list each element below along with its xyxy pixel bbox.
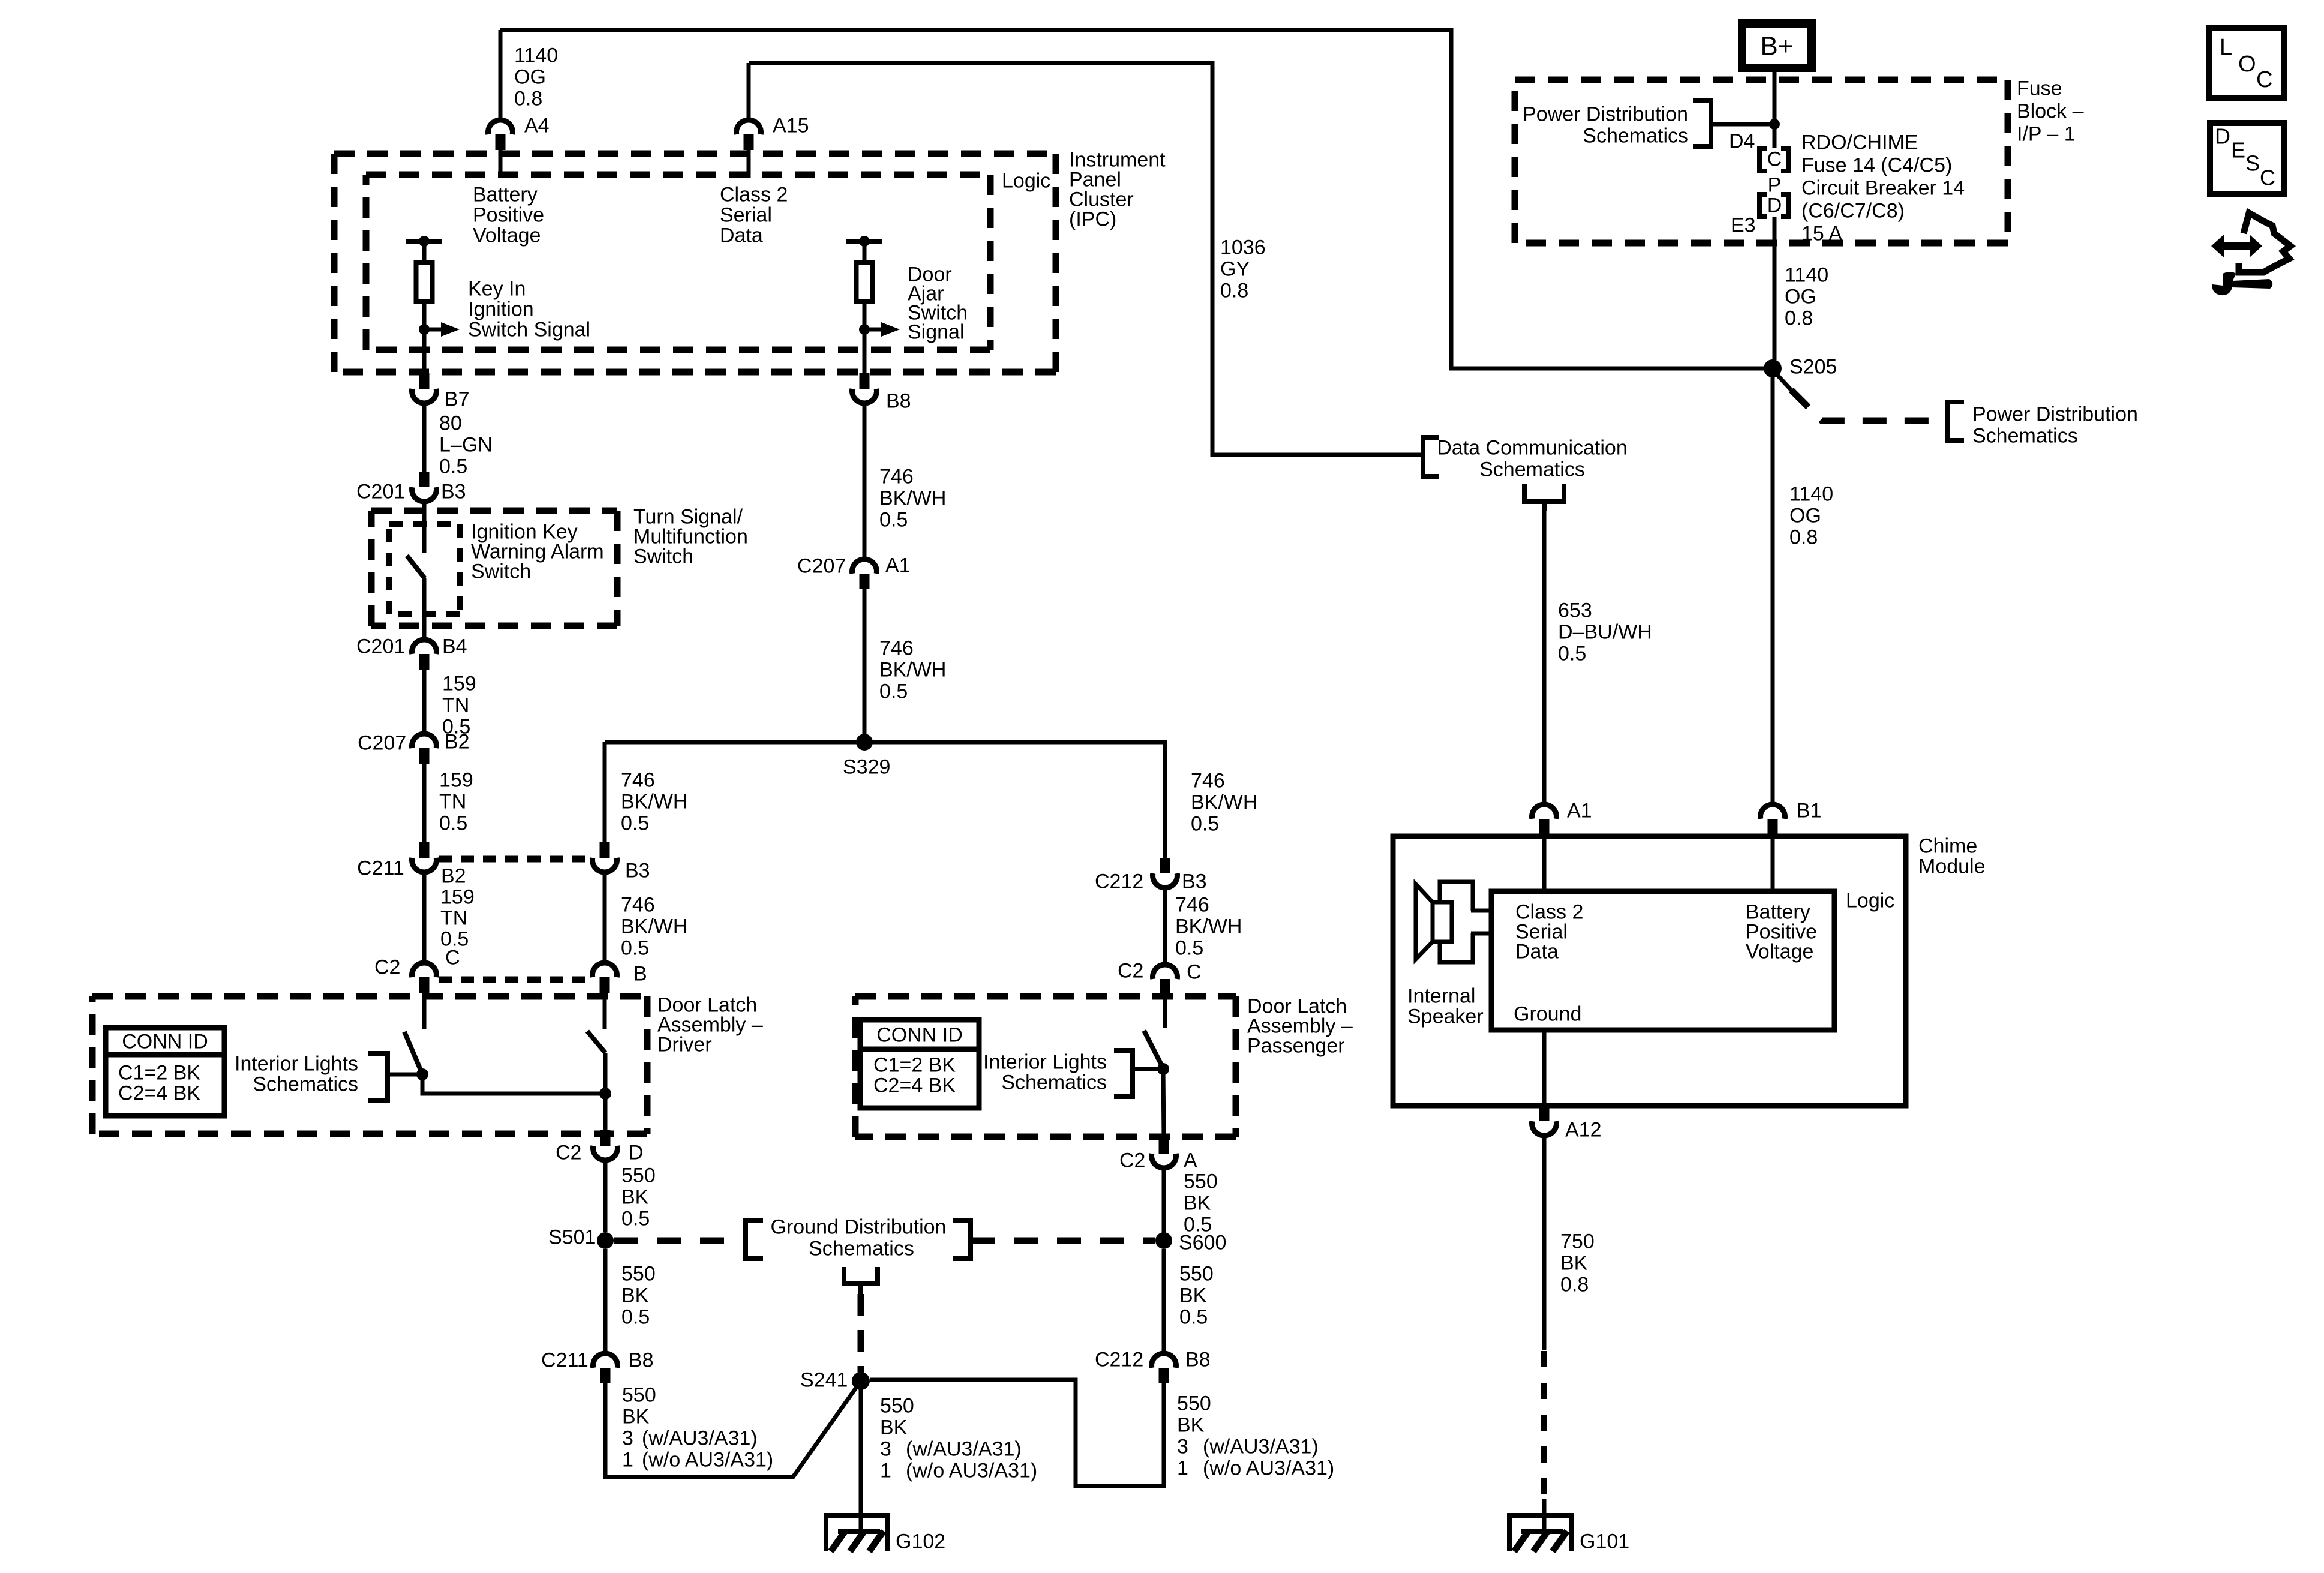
svg-text:C1=2 BK: C1=2 BK — [118, 1061, 200, 1084]
svg-text:BK/WH: BK/WH — [879, 487, 946, 509]
svg-text:159: 159 — [442, 672, 476, 695]
svg-text:C201: C201 — [356, 635, 405, 658]
svg-text:P: P — [1768, 173, 1782, 196]
svg-text:0.5: 0.5 — [621, 1305, 650, 1328]
svg-text:0.5: 0.5 — [439, 812, 467, 834]
svg-text:80: 80 — [439, 412, 462, 434]
svg-text:A15: A15 — [773, 114, 809, 137]
svg-text:Interior Lights: Interior Lights — [983, 1050, 1107, 1073]
wire bracket to node D4 — [1711, 122, 1774, 127]
svg-text:RDO/CHIME: RDO/CHIME — [1801, 131, 1918, 154]
svg-text:TN: TN — [442, 694, 469, 716]
dashed wire to G101 — [1541, 1351, 1547, 1501]
svg-text:3: 3 — [622, 1427, 633, 1449]
chime Logic box — [1491, 891, 1834, 1030]
svg-text:(w/AU3/A31): (w/AU3/A31) — [1203, 1435, 1319, 1458]
svg-text:Switch: Switch — [471, 560, 531, 583]
arrow Key In Ignition Switch Signal — [424, 328, 441, 332]
svg-text:L: L — [2220, 35, 2232, 60]
dashed reference S205 to Power Distribution — [1776, 374, 1791, 390]
svg-text:0.5: 0.5 — [439, 455, 467, 478]
bracket right of Ground Distribution Schematics — [953, 1220, 971, 1259]
svg-text:B3: B3 — [441, 480, 466, 503]
svg-text:C: C — [1767, 148, 1782, 170]
svg-text:CONN ID: CONN ID — [876, 1023, 963, 1046]
svg-text:C212: C212 — [1095, 1348, 1143, 1371]
wire bracket to switch node (driver) — [388, 1073, 420, 1077]
svg-text:D: D — [629, 1141, 644, 1164]
svg-text:(w/AU3/A31): (w/AU3/A31) — [906, 1437, 1022, 1460]
wire S600 to C212 B8 — [1162, 1249, 1166, 1352]
svg-text:BK/WH: BK/WH — [1191, 791, 1257, 813]
svg-text:746: 746 — [879, 465, 914, 488]
resistor (Door Ajar) — [863, 241, 867, 263]
node passenger latch switch — [1157, 1063, 1169, 1075]
svg-text:C2: C2 — [1118, 959, 1143, 982]
svg-text:Battery: Battery — [473, 183, 538, 206]
svg-text:CONN ID: CONN ID — [122, 1030, 208, 1053]
svg-text:BK: BK — [1560, 1251, 1588, 1274]
wire C207 A1 to S329 — [863, 589, 867, 742]
svg-text:Key In: Key In — [468, 277, 526, 300]
node at Door Ajar signal arrow — [859, 324, 870, 335]
svg-text:S205: S205 — [1789, 355, 1837, 378]
Fuse Block dashed box — [1515, 77, 2008, 83]
node at top of Key In resistor — [419, 236, 430, 247]
svg-text:159: 159 — [440, 885, 475, 908]
node driver latch switch — [416, 1068, 428, 1080]
driver door ajar switch blade (right) — [587, 1031, 605, 1053]
svg-text:Power Distribution: Power Distribution — [1972, 403, 2138, 425]
connector B8 (IPC door ajar) — [860, 373, 870, 389]
svg-text:1140: 1140 — [514, 44, 558, 67]
svg-text:D–BU/WH: D–BU/WH — [1558, 620, 1652, 643]
svg-text:0.8: 0.8 — [1789, 526, 1818, 548]
svg-text:A1: A1 — [885, 554, 911, 577]
svg-text:3: 3 — [880, 1437, 891, 1460]
CONN ID table (passenger) — [860, 1020, 979, 1108]
svg-text:B2: B2 — [445, 730, 470, 753]
svg-text:Schematics: Schematics — [1479, 458, 1585, 481]
svg-text:550: 550 — [622, 1383, 656, 1406]
wire C211 B3 to C2 B (driver right) — [603, 873, 607, 962]
svg-text:C2=4 BK: C2=4 BK — [118, 1082, 200, 1104]
svg-text:550: 550 — [880, 1394, 914, 1417]
svg-text:A: A — [1184, 1149, 1197, 1172]
svg-text:0.5: 0.5 — [1191, 812, 1219, 835]
wire C201 B4 to C207 B2 — [422, 670, 427, 733]
svg-text:Power Distribution: Power Distribution — [1523, 103, 1688, 125]
connector B1 (chime module) — [1761, 804, 1785, 819]
svg-text:B2: B2 — [441, 864, 466, 887]
connector C212 B3 (passenger) — [1160, 858, 1170, 873]
wire A12 down — [1542, 1137, 1547, 1350]
svg-text:550: 550 — [621, 1262, 656, 1285]
resistor (Key In Ignition) — [422, 241, 427, 263]
wire C211 B8 to S241 — [605, 1381, 861, 1477]
svg-text:Internal: Internal — [1407, 984, 1475, 1007]
svg-text:0.5: 0.5 — [1179, 1305, 1208, 1328]
svg-text:E: E — [2231, 138, 2245, 163]
svg-text:OG: OG — [1785, 285, 1816, 308]
svg-text:746: 746 — [1175, 893, 1209, 916]
svg-text:Schematics: Schematics — [253, 1073, 358, 1095]
svg-text:0.8: 0.8 — [1220, 279, 1248, 302]
svg-text:Driver: Driver — [657, 1033, 712, 1056]
svg-text:A4: A4 — [524, 114, 550, 137]
wire B8 to C207 A1 — [863, 404, 867, 558]
under-bracket Data Communication — [1524, 484, 1564, 502]
svg-text:750: 750 — [1560, 1230, 1595, 1253]
svg-text:0.5: 0.5 — [879, 680, 908, 703]
splice S205 — [1764, 359, 1782, 377]
bracket left of Ground Distribution Schematics — [746, 1220, 763, 1259]
svg-text:746: 746 — [621, 769, 655, 791]
svg-text:653: 653 — [1558, 599, 1592, 622]
wire A1 into logic box — [1542, 834, 1547, 891]
svg-text:Data: Data — [720, 224, 763, 247]
svg-text:BK: BK — [621, 1284, 649, 1307]
in-line connector C211 right half (cavity B3) — [600, 842, 610, 858]
svg-text:3: 3 — [1177, 1435, 1188, 1458]
connector C211 B8 (driver) — [593, 1353, 618, 1368]
wire from S329 branch to passenger door — [603, 742, 607, 842]
svg-text:C: C — [1187, 960, 1202, 983]
svg-text:Logic: Logic — [1002, 169, 1050, 192]
connector C201 B3 — [419, 472, 430, 487]
internal speaker symbol — [1440, 882, 1473, 962]
driver door latch switch blade (left) — [404, 1032, 421, 1071]
svg-text:B8: B8 — [629, 1349, 654, 1371]
passenger latch switch blade — [1144, 1031, 1162, 1066]
svg-text:TN: TN — [439, 790, 466, 813]
svg-text:Logic: Logic — [1846, 889, 1894, 912]
dashed reference Ground Distribution to S600 — [971, 1238, 1155, 1244]
svg-text:550: 550 — [621, 1164, 656, 1187]
svg-text:B8: B8 — [886, 389, 911, 412]
svg-text:S329: S329 — [843, 755, 890, 778]
svg-text:G101: G101 — [1580, 1530, 1629, 1553]
bracket Power Distribution (fuse block) — [1693, 101, 1711, 146]
svg-text:B4: B4 — [442, 635, 467, 658]
svg-text:1: 1 — [880, 1459, 891, 1482]
svg-text:Ground: Ground — [1514, 1002, 1581, 1025]
svg-text:C212: C212 — [1095, 870, 1143, 893]
svg-text:Class 2: Class 2 — [720, 183, 788, 206]
svg-text:Schematics: Schematics — [1001, 1071, 1107, 1094]
svg-text:Module: Module — [1918, 855, 1986, 878]
svg-text:BK: BK — [880, 1416, 908, 1439]
ground G102 — [824, 1513, 890, 1518]
svg-text:C2: C2 — [556, 1141, 581, 1164]
IPC Logic inner dashed box — [366, 172, 990, 178]
connector C201 B4 — [412, 640, 437, 654]
svg-text:C211: C211 — [541, 1349, 588, 1371]
wire from Door Ajar node to connector B8 — [863, 329, 867, 374]
connector B7 (IPC bottom) — [419, 373, 430, 389]
svg-text:1: 1 — [622, 1448, 633, 1471]
wire driver ajar switch down to C2 D — [603, 1053, 608, 1131]
svg-text:(C6/C7/C8): (C6/C7/C8) — [1801, 199, 1905, 222]
svg-text:Fuse 14 (C4/C5): Fuse 14 (C4/C5) — [1801, 154, 1952, 176]
connector A12 (chime module) — [1539, 1106, 1550, 1121]
in-line connector C2 right half (cavity B, driver) — [593, 963, 617, 977]
svg-text:Schematics: Schematics — [1972, 424, 2078, 447]
wire switch to C201 B4 — [422, 578, 427, 638]
svg-text:S241: S241 — [800, 1368, 848, 1391]
connector C2 C (passenger) — [1152, 965, 1177, 979]
arrow Door Ajar Switch Signal — [864, 328, 881, 332]
wire stub into IPC connector A4 — [499, 30, 503, 118]
connector C2 D (driver) — [600, 1130, 611, 1146]
svg-text:OG: OG — [1789, 504, 1821, 527]
ignition key warning switch blade — [407, 556, 425, 578]
wire C2 A to S600 — [1162, 1169, 1166, 1233]
svg-text:D: D — [2215, 124, 2230, 149]
bracket Data Communication Schematics — [1423, 437, 1439, 476]
svg-text:(w/o AU3/A31): (w/o AU3/A31) — [1203, 1457, 1334, 1479]
svg-text:A12: A12 — [1565, 1118, 1602, 1141]
node on driver ajar switch wire — [599, 1088, 611, 1100]
svg-text:550: 550 — [1184, 1170, 1218, 1193]
svg-text:B3: B3 — [1182, 870, 1207, 893]
Ignition Key Warning Alarm Switch inner dashed box — [389, 521, 460, 527]
dashed reference S501 to Ground Distribution — [614, 1238, 746, 1244]
svg-text:746: 746 — [1191, 769, 1225, 792]
svg-text:0.8: 0.8 — [1560, 1273, 1589, 1296]
svg-text:GY: GY — [1220, 257, 1250, 280]
splice S600 — [1155, 1232, 1172, 1249]
svg-text:Data Communication: Data Communication — [1437, 436, 1627, 459]
svg-text:Serial: Serial — [720, 203, 772, 226]
svg-text:Chime: Chime — [1918, 834, 1977, 857]
svg-text:B3: B3 — [625, 859, 650, 882]
connector A1 (chime module) — [1542, 786, 1547, 803]
svg-text:BK/WH: BK/WH — [1175, 915, 1242, 938]
svg-text:BK: BK — [621, 1185, 649, 1208]
Chime Module box — [1393, 836, 1906, 1106]
svg-text:BK: BK — [1179, 1284, 1207, 1307]
svg-text:0.5: 0.5 — [621, 936, 649, 959]
svg-text:C: C — [2260, 166, 2275, 190]
svg-text:Circuit Breaker 14: Circuit Breaker 14 — [1801, 176, 1965, 199]
Instrument Panel Cluster outer dashed box — [334, 151, 1056, 157]
svg-text:C207: C207 — [797, 554, 846, 577]
svg-text:L–GN: L–GN — [439, 433, 493, 456]
svg-text:159: 159 — [439, 769, 473, 791]
svg-text:S: S — [2245, 151, 2260, 176]
svg-text:Voltage: Voltage — [473, 224, 541, 247]
Key In Ignition pull-up branch top bar — [406, 239, 442, 244]
svg-text:G102: G102 — [896, 1530, 945, 1553]
Door Latch Assembly Passenger dashed box — [855, 993, 1236, 1000]
dashed reference down to S241 — [858, 1294, 864, 1374]
svg-text:Data: Data — [1515, 940, 1559, 963]
wire C2 D to S501 — [603, 1161, 608, 1232]
wire B1 into logic box — [1771, 834, 1775, 891]
B+ power feed box — [1742, 23, 1812, 68]
Door Latch Assembly Driver dashed box — [92, 993, 647, 1000]
wire S205 to chime B1 — [1771, 368, 1775, 803]
svg-text:Speaker: Speaker — [1407, 1005, 1484, 1028]
svg-text:(w/AU3/A31): (w/AU3/A31) — [642, 1427, 758, 1449]
svg-text:0.5: 0.5 — [1558, 642, 1586, 665]
svg-text:550: 550 — [1177, 1392, 1211, 1415]
bracket to Interior Lights Schematics (passenger) — [1114, 1050, 1133, 1097]
node at Key In signal arrow — [419, 324, 430, 335]
svg-text:B7: B7 — [445, 388, 470, 410]
svg-text:(IPC): (IPC) — [1069, 208, 1116, 230]
wire C212 B3 to C2 C (passenger) — [1163, 889, 1167, 963]
svg-text:A1: A1 — [1567, 799, 1592, 822]
svg-text:Schematics: Schematics — [809, 1237, 914, 1260]
splice S501 — [597, 1232, 614, 1249]
connector C207 B2 — [412, 734, 437, 748]
node at top of Door Ajar resistor — [859, 236, 870, 247]
svg-text:C207: C207 — [358, 731, 406, 754]
wire B+ into fuse block — [1773, 68, 1777, 148]
svg-text:C2: C2 — [374, 956, 400, 978]
in-line connector C211 left half (cavity B2) — [419, 842, 430, 858]
fuse/circuit breaker cavity D — [1759, 194, 1767, 217]
svg-text:15 A: 15 A — [1801, 222, 1842, 245]
LOC legend box — [2209, 28, 2284, 98]
Turn Signal/Multifunction Switch outer dashed box — [371, 508, 617, 514]
fuse/circuit breaker cavity C — [1759, 149, 1767, 171]
svg-text:Fuse: Fuse — [2017, 77, 2062, 100]
wires C2 into driver door latch — [422, 993, 427, 1029]
svg-text:BK: BK — [622, 1405, 650, 1428]
svg-text:Switch Signal: Switch Signal — [468, 318, 590, 341]
svg-text:C201: C201 — [356, 480, 405, 503]
wire chime ground to A12 — [1542, 1030, 1547, 1106]
wire S501 to C211 B8 — [603, 1249, 608, 1352]
wire S241 to ground G102 — [859, 1381, 863, 1532]
svg-text:C211: C211 — [357, 857, 404, 879]
C211 connector dotted link — [439, 856, 590, 863]
DESC legend box — [2210, 123, 2284, 194]
splice S241 — [852, 1372, 870, 1390]
svg-text:BK/WH: BK/WH — [879, 658, 946, 681]
svg-text:0.5: 0.5 — [621, 812, 649, 834]
bracket to Interior Lights Schematics (driver) — [368, 1053, 388, 1100]
bracket Power Distribution Schematics (right) — [1947, 402, 1964, 440]
svg-text:D4: D4 — [1729, 130, 1755, 152]
wire C201 B3 into switch — [422, 503, 427, 553]
svg-text:OG: OG — [514, 65, 546, 88]
svg-text:550: 550 — [1179, 1262, 1214, 1285]
svg-text:C: C — [445, 946, 460, 969]
svg-text:BK/WH: BK/WH — [621, 790, 687, 813]
wire latch node to door-ajar switch (driver) — [422, 1074, 605, 1094]
ground G101 — [1507, 1513, 1574, 1518]
wire C212 B8 to S241 — [870, 1380, 1164, 1486]
wire Data Communication to chime A1 — [1542, 510, 1547, 803]
svg-text:B8: B8 — [1185, 1348, 1211, 1371]
connector A4 (IPC) — [488, 120, 513, 134]
connector C207 A1 — [852, 559, 877, 574]
wire C207 B2 to C211 B2 — [422, 764, 427, 842]
wire from IPC A4 to S205 (1140 OG circuit) — [500, 30, 1768, 368]
svg-text:Interior Lights: Interior Lights — [235, 1052, 358, 1075]
svg-text:BK/WH: BK/WH — [621, 915, 687, 938]
svg-text:C1=2 BK: C1=2 BK — [873, 1053, 956, 1076]
svg-text:Voltage: Voltage — [1746, 940, 1813, 963]
svg-text:0.5: 0.5 — [1175, 936, 1203, 959]
wire B7 to C201 B3 — [422, 404, 427, 472]
svg-text:E3: E3 — [1731, 214, 1756, 236]
svg-text:0.8: 0.8 — [514, 87, 542, 110]
Door Ajar pull-up branch top bar — [846, 239, 882, 244]
svg-text:C: C — [2256, 67, 2272, 92]
svg-text:C2=4 BK: C2=4 BK — [873, 1074, 956, 1097]
svg-text:1036: 1036 — [1220, 236, 1266, 259]
connector C2 A (passenger) — [1159, 1138, 1169, 1154]
svg-text:B: B — [633, 962, 647, 985]
wire fuse to S205 — [1773, 217, 1777, 360]
C2 connector dotted link (driver) — [439, 977, 590, 983]
connector C212 B8 (passenger) — [1152, 1353, 1176, 1368]
in-line connector C2 left half (cavity C, driver) — [412, 963, 437, 977]
svg-text:B+: B+ — [1760, 31, 1793, 61]
svg-text:0.5: 0.5 — [621, 1207, 650, 1230]
svg-text:Passenger: Passenger — [1247, 1034, 1345, 1057]
node D4 — [1769, 119, 1780, 130]
svg-text:I/P – 1: I/P – 1 — [2017, 122, 2076, 145]
svg-text:Ignition: Ignition — [468, 298, 534, 320]
wire C2 C into passenger latch switch — [1163, 995, 1167, 1028]
svg-text:BK: BK — [1177, 1413, 1205, 1436]
svg-text:S501: S501 — [548, 1226, 596, 1248]
svg-text:0.8: 0.8 — [1785, 307, 1813, 329]
wire S329 horizontal run — [605, 742, 1165, 859]
svg-text:Signal: Signal — [908, 320, 965, 343]
splice S329 — [856, 734, 873, 751]
wrench icon — [2212, 272, 2272, 295]
svg-text:746: 746 — [621, 893, 655, 916]
svg-text:1140: 1140 — [1785, 263, 1828, 286]
svg-text:D: D — [1767, 194, 1782, 217]
svg-text:Switch: Switch — [633, 545, 693, 568]
CONN ID table (driver) — [106, 1028, 224, 1116]
svg-text:0.5: 0.5 — [879, 508, 908, 531]
svg-text:(w/o AU3/A31): (w/o AU3/A31) — [906, 1459, 1037, 1482]
connector A15 (IPC) — [737, 120, 761, 134]
wire bracket to switch node (passenger) — [1133, 1067, 1160, 1071]
svg-text:O: O — [2238, 52, 2256, 77]
wire stub into IPC connector A15 — [747, 63, 751, 118]
wire C211 to C2 (driver left) — [422, 873, 427, 962]
svg-text:C2: C2 — [1119, 1149, 1145, 1172]
svg-text:Block –: Block – — [2017, 100, 2084, 122]
svg-text:Ground Distribution: Ground Distribution — [771, 1215, 947, 1238]
vehicle direction icon arrow — [2211, 235, 2262, 257]
svg-text:BK: BK — [1184, 1191, 1211, 1214]
svg-text:Schematics: Schematics — [1583, 124, 1688, 147]
vehicle icon outline — [2239, 213, 2290, 272]
wire from IPC A15 to Data Communication branch — [749, 63, 1421, 455]
svg-text:B1: B1 — [1797, 799, 1822, 822]
svg-text:TN: TN — [440, 906, 467, 929]
svg-text:Positive: Positive — [473, 203, 544, 226]
wire from Key In node to connector B7 — [422, 329, 427, 374]
svg-text:1140: 1140 — [1789, 482, 1833, 505]
svg-text:(w/o AU3/A31): (w/o AU3/A31) — [642, 1448, 773, 1471]
wire passenger switch to C2 A — [1163, 1069, 1164, 1138]
under-bracket of Ground Distribution Schematics — [844, 1267, 878, 1284]
svg-text:S600: S600 — [1179, 1231, 1226, 1254]
svg-text:1: 1 — [1177, 1457, 1188, 1479]
